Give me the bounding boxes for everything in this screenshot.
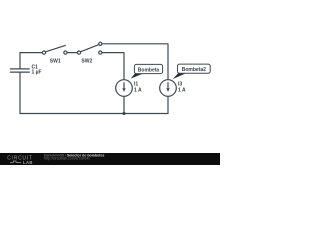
svg-text:SW1: SW1 bbox=[50, 58, 61, 64]
wire: I1 to bottom rail bbox=[123, 96, 125, 113]
switch SW2 bbox=[77, 42, 102, 54]
svg-text:1 A: 1 A bbox=[134, 88, 142, 94]
junction: I1 / bottom rail bbox=[122, 112, 125, 115]
wire: left vertical upper segment bbox=[19, 53, 21, 69]
wire: SW2 bottom throw to I1 branch bbox=[102, 53, 124, 80]
footer: CircuitLab logo bar bbox=[0, 153, 220, 165]
svg-text:1 µF: 1 µF bbox=[32, 70, 42, 76]
switch SW1 bbox=[42, 45, 67, 54]
svg-text:I3: I3 bbox=[178, 82, 182, 88]
wire: I3 to bottom rail bbox=[167, 96, 169, 113]
capacitor C1 bbox=[10, 69, 29, 72]
svg-text:Bombeta2: Bombeta2 bbox=[182, 67, 206, 73]
wire: bottom rail bbox=[20, 113, 168, 115]
callout Bombeta2 (annotation for I3) bbox=[173, 64, 210, 79]
current source I1 bbox=[116, 80, 133, 97]
current source I3 bbox=[160, 80, 177, 97]
svg-text:Bombeta: Bombeta bbox=[138, 67, 160, 73]
svg-text:I1: I1 bbox=[134, 82, 138, 88]
svg-text:http://circuitlab.com/c/7skd4x: http://circuitlab.com/c/7skd4x bbox=[44, 157, 90, 161]
wire: SW2 top throw to I3 branch bbox=[102, 44, 168, 80]
wire: top rail from left corner to SW1 bbox=[20, 52, 42, 54]
callout Bombeta (annotation for I1) bbox=[131, 64, 163, 78]
svg-text:1 A: 1 A bbox=[178, 88, 186, 94]
svg-text:LAB: LAB bbox=[23, 160, 33, 165]
wire: SW1 to SW2 bbox=[67, 52, 77, 54]
svg-text:SW2: SW2 bbox=[81, 58, 92, 64]
wire: left vertical lower segment bbox=[19, 72, 21, 113]
